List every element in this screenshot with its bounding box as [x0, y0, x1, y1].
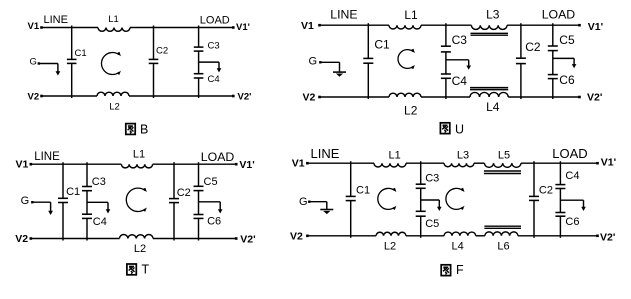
common-mode current loop (fig U)	[398, 49, 415, 69]
ground G (fig T)	[21, 195, 53, 215]
inductor L4 (fig F)	[444, 232, 476, 236]
capacitor C4 (fig T)	[82, 214, 92, 218]
common-mode current loop 1 (fig F)	[378, 188, 397, 210]
svg-text:C2: C2	[539, 184, 553, 196]
label C2 (fig F)	[539, 184, 553, 196]
svg-text:C6: C6	[207, 215, 221, 227]
label L2 (fig F)	[384, 241, 396, 253]
label L6 (fig F)	[497, 241, 509, 253]
wire bottom-right segment (fig B)	[129, 95, 235, 98]
ground arrow at C3-C5 midpoint (fig F)	[421, 200, 442, 211]
node V2&#39; (fig B)	[238, 91, 252, 102]
net label LINE (fig U)	[330, 8, 357, 22]
svg-text:LINE: LINE	[311, 146, 340, 161]
choke core lines L5 (fig F)	[484, 171, 521, 174]
ground G (fig U)	[309, 56, 347, 77]
capacitor C2 branch wire (fig U)	[520, 23, 522, 99]
capacitor C1 (fig U)	[363, 58, 373, 63]
svg-text:L4: L4	[451, 241, 463, 253]
node V1&#39; (fig U)	[588, 21, 603, 33]
inductor L2 (fig F)	[376, 232, 406, 236]
wire bottom-left segment (fig B)	[40, 95, 97, 98]
caption fig U	[440, 123, 464, 137]
capacitor C2 branch wire (fig F)	[533, 161, 535, 238]
label C4 (fig B)	[208, 74, 220, 85]
label C3 (fig T)	[92, 176, 106, 188]
choke core lines L3 (fig U)	[471, 33, 509, 35]
wire top-right segment (fig T)	[153, 163, 238, 166]
label C1 (fig F)	[356, 185, 370, 197]
net label LOAD (fig F)	[552, 146, 587, 161]
node V1&#39; (fig F)	[601, 157, 616, 169]
inductor L1 (fig B)	[98, 28, 130, 32]
wire top-left segment (fig T)	[30, 163, 122, 166]
svg-text:C5: C5	[204, 176, 218, 188]
ground G (fig F)	[299, 196, 333, 214]
capacitor C3-C4 branch wire (fig B)	[198, 26, 200, 99]
svg-text:L1: L1	[404, 8, 418, 22]
capacitor C3-C4 branch wire (fig U)	[445, 23, 447, 99]
capacitor C3 (fig F)	[416, 184, 426, 188]
inductor L2 (fig T)	[120, 235, 154, 239]
ground arrow at C5-C6 midpoint (fig T)	[199, 202, 223, 214]
svg-text:L2: L2	[404, 104, 418, 118]
capacitor C3 (fig B)	[194, 47, 204, 51]
svg-text:V2': V2'	[587, 91, 602, 103]
svg-text:C3: C3	[425, 173, 439, 185]
svg-text:L1: L1	[388, 150, 400, 162]
capacitor C2 branch wire (fig T)	[173, 162, 175, 240]
label L4 (fig U)	[486, 100, 500, 114]
svg-text:V1': V1'	[236, 22, 250, 33]
svg-text:V1': V1'	[239, 159, 254, 171]
svg-text:L4: L4	[486, 100, 500, 114]
capacitor C5-C6 branch wire (fig U)	[552, 23, 554, 99]
caption fig F	[441, 263, 464, 277]
common-mode current loop (fig T)	[126, 188, 147, 212]
label C4 (fig T)	[93, 216, 107, 228]
svg-text:V2': V2'	[238, 91, 252, 102]
svg-text:LINE: LINE	[34, 151, 60, 163]
inductor L3 (fig U)	[471, 25, 507, 29]
svg-text:V1: V1	[28, 21, 40, 32]
svg-text:C6: C6	[559, 73, 575, 87]
net label LOAD (fig T)	[201, 150, 235, 164]
caption fig B	[126, 123, 149, 137]
node V2&#39; (fig T)	[240, 234, 255, 246]
capacitor C5 (fig T)	[194, 186, 204, 190]
inductor L2 (fig B)	[97, 92, 129, 96]
choke core lines L4 (fig U)	[470, 88, 508, 90]
net label LINE (fig T)	[34, 151, 60, 163]
wire bottom segment 2 (fig U)	[421, 96, 470, 98]
capacitor C1 branch wire (fig U)	[367, 23, 369, 99]
svg-text:V1': V1'	[601, 157, 616, 169]
node V1&#39; (fig T)	[239, 159, 254, 171]
svg-text:T: T	[142, 263, 150, 277]
wire top-right segment (fig B)	[130, 26, 235, 29]
wire top segment 2 (fig F)	[406, 162, 444, 164]
capacitor C4 (fig F)	[555, 185, 565, 189]
svg-text:C3: C3	[92, 176, 106, 188]
wire bottom segment 4 (fig F)	[518, 235, 599, 238]
common-mode current loop 2 (fig F)	[446, 188, 465, 210]
svg-text:C1: C1	[356, 185, 370, 197]
caption fig T	[127, 263, 150, 277]
capacitor C1 branch wire (fig T)	[62, 162, 64, 240]
net label LINE (fig B)	[44, 14, 68, 26]
wire top segment 3 (fig U)	[507, 24, 581, 27]
svg-text:LINE: LINE	[44, 14, 68, 26]
wire top segment 1 (fig U)	[318, 24, 389, 27]
inductor L1 (fig F)	[374, 163, 406, 167]
wire top-left segment (fig B)	[40, 26, 98, 29]
label L4 (fig F)	[451, 241, 463, 253]
svg-text:V2': V2'	[240, 234, 255, 246]
node V2&#39; (fig F)	[600, 232, 615, 244]
label C2 (fig U)	[525, 40, 541, 54]
capacitor C4-C6 branch wire (fig F)	[559, 161, 561, 238]
label L2 (fig U)	[404, 104, 418, 118]
capacitor C1 (fig F)	[346, 196, 356, 200]
inductor L1 (fig T)	[121, 164, 152, 168]
svg-text:V1: V1	[292, 157, 305, 169]
net label LOAD (fig U)	[542, 8, 576, 22]
svg-text:C6: C6	[565, 216, 579, 228]
label L1 (fig B)	[108, 14, 119, 25]
label C3 (fig B)	[208, 41, 220, 52]
svg-text:C1: C1	[75, 48, 87, 59]
inductor L3 (fig F)	[444, 163, 474, 167]
ground arrow at C4-C6 midpoint (fig F)	[560, 200, 585, 211]
node V2 (fig T)	[15, 233, 28, 245]
net label LOAD (fig B)	[200, 15, 230, 27]
capacitor C1 branch wire (fig B)	[71, 26, 73, 99]
svg-text:V2: V2	[15, 233, 28, 245]
svg-text:LOAD: LOAD	[200, 15, 230, 27]
capacitor C2 branch wire (fig B)	[153, 26, 155, 99]
svg-text:U: U	[455, 123, 464, 137]
svg-text:C1: C1	[66, 186, 80, 198]
svg-text:L5: L5	[498, 149, 510, 161]
wire bottom segment 1 (fig U)	[318, 96, 389, 99]
svg-text:C5: C5	[559, 33, 575, 47]
wire bottom-left segment (fig T)	[30, 237, 120, 240]
capacitor C1 (fig B)	[67, 59, 77, 63]
capacitor C5-C6 branch wire (fig T)	[198, 162, 200, 240]
svg-text:L1: L1	[133, 149, 145, 161]
capacitor C2 (fig U)	[516, 58, 526, 63]
svg-text:V1': V1'	[588, 21, 603, 33]
wire top segment 3 (fig F)	[474, 162, 485, 164]
svg-text:LOAD: LOAD	[201, 150, 235, 164]
svg-text:V2': V2'	[600, 232, 615, 244]
svg-text:B: B	[140, 123, 148, 137]
label C6 (fig T)	[207, 215, 221, 227]
inductor L5 (fig F)	[484, 163, 521, 167]
svg-text:C3: C3	[452, 33, 468, 47]
ground arrow at C3-C4 midpoint (fig B)	[199, 62, 222, 72]
label C3 (fig F)	[425, 173, 439, 185]
label L3 (fig U)	[486, 8, 500, 22]
svg-text:LOAD: LOAD	[542, 8, 576, 22]
label C6 (fig U)	[559, 73, 575, 87]
net label LINE (fig F)	[311, 146, 340, 161]
capacitor C1 branch wire (fig F)	[350, 161, 352, 238]
wire top segment 1 (fig F)	[306, 162, 374, 165]
svg-text:L3: L3	[457, 150, 469, 162]
svg-text:C4: C4	[452, 74, 468, 88]
ground arrow at C3-C4 midpoint (fig U)	[446, 60, 471, 70]
capacitor C1 (fig T)	[58, 198, 68, 202]
label L2 (fig T)	[134, 243, 146, 255]
wire top segment 2 (fig U)	[421, 24, 471, 26]
inductor L2 (fig U)	[389, 93, 421, 97]
svg-text:LINE: LINE	[330, 8, 357, 22]
svg-text:G: G	[30, 57, 37, 68]
svg-text:C3: C3	[208, 41, 220, 52]
ground G (fig B)	[30, 57, 61, 76]
node V1 (fig U)	[301, 20, 314, 32]
label L1 (fig U)	[404, 8, 418, 22]
capacitor C3-C5 branch wire (fig F)	[420, 161, 422, 238]
inductor L4 (fig U)	[470, 92, 508, 97]
capacitor C4 (fig U)	[441, 74, 451, 78]
svg-text:C1: C1	[374, 37, 390, 51]
svg-text:C2: C2	[177, 187, 191, 199]
capacitor C3 (fig U)	[441, 46, 451, 52]
svg-text:V2: V2	[28, 91, 40, 102]
svg-text:G: G	[309, 56, 318, 68]
label C1 (fig B)	[75, 48, 87, 59]
wire bottom segment 2 (fig F)	[406, 235, 444, 237]
choke core lines L6 (fig F)	[484, 226, 521, 228]
capacitor C6 (fig T)	[194, 215, 204, 219]
capacitor C6 (fig F)	[555, 213, 565, 217]
wire bottom segment 3 (fig U)	[508, 96, 581, 99]
node V1 (fig F)	[292, 157, 305, 169]
node V1 (fig B)	[28, 21, 40, 32]
svg-text:L6: L6	[497, 241, 509, 253]
capacitor C2 (fig B)	[149, 59, 159, 63]
wire bottom segment 3 (fig F)	[476, 235, 485, 237]
ground arrow at C3-C4 midpoint (fig T)	[87, 202, 110, 213]
common-mode current loop (fig B)	[101, 52, 120, 75]
wire bottom segment 1 (fig F)	[306, 235, 376, 238]
svg-text:V1: V1	[16, 159, 29, 171]
svg-text:L2: L2	[384, 241, 396, 253]
node V1&#39; (fig B)	[236, 22, 250, 33]
svg-text:V1: V1	[301, 20, 314, 32]
svg-text:L1: L1	[108, 14, 119, 25]
svg-text:V2: V2	[290, 231, 303, 243]
label C3 (fig U)	[452, 33, 468, 47]
svg-text:C5: C5	[425, 218, 439, 230]
label C6 (fig F)	[565, 216, 579, 228]
capacitor C2 (fig T)	[169, 199, 179, 203]
svg-text:G: G	[21, 195, 30, 207]
node V1 (fig T)	[16, 159, 29, 171]
label L5 (fig F)	[498, 149, 510, 161]
svg-text:L2: L2	[109, 102, 120, 113]
node V2&#39; (fig U)	[587, 91, 602, 103]
label L1 (fig T)	[133, 149, 145, 161]
inductor L1 (fig U)	[389, 25, 421, 29]
svg-text:L3: L3	[486, 8, 500, 22]
svg-text:C2: C2	[525, 40, 541, 54]
svg-text:L2: L2	[134, 243, 146, 255]
svg-text:C2: C2	[156, 46, 168, 57]
label C5 (fig F)	[425, 218, 439, 230]
svg-text:V2: V2	[303, 91, 316, 103]
label C1 (fig U)	[374, 37, 390, 51]
capacitor C2 (fig F)	[529, 196, 539, 200]
svg-text:LOAD: LOAD	[552, 146, 587, 161]
label C2 (fig T)	[177, 187, 191, 199]
node V2 (fig B)	[28, 91, 40, 102]
capacitor C5 (fig U)	[548, 46, 558, 51]
wire top segment 4 (fig F)	[521, 162, 599, 165]
svg-text:C4: C4	[208, 74, 220, 85]
svg-text:C4: C4	[565, 170, 579, 182]
svg-text:F: F	[456, 263, 464, 277]
label C4 (fig U)	[452, 74, 468, 88]
label L2 (fig B)	[109, 102, 120, 113]
capacitor C4 (fig B)	[194, 74, 204, 78]
capacitor C3-C4 branch wire (fig T)	[86, 162, 88, 240]
node V2 (fig U)	[303, 91, 316, 103]
capacitor C3 (fig T)	[82, 187, 92, 191]
label L1 (fig F)	[388, 150, 400, 162]
label C5 (fig U)	[559, 33, 575, 47]
capacitor C6 (fig U)	[548, 75, 558, 79]
inductor L6 (fig F)	[485, 232, 518, 236]
label L3 (fig F)	[457, 150, 469, 162]
label C4 (fig F)	[565, 170, 579, 182]
label C2 (fig B)	[156, 46, 168, 57]
ground arrow at C5-C6 midpoint (fig U)	[553, 58, 577, 68]
wire bottom-right segment (fig T)	[153, 237, 238, 240]
node V2 (fig F)	[290, 231, 303, 243]
label C1 (fig T)	[66, 186, 80, 198]
label C5 (fig T)	[204, 176, 218, 188]
svg-text:G: G	[299, 196, 308, 208]
capacitor C5 (fig F)	[416, 211, 426, 216]
svg-text:C4: C4	[93, 216, 107, 228]
